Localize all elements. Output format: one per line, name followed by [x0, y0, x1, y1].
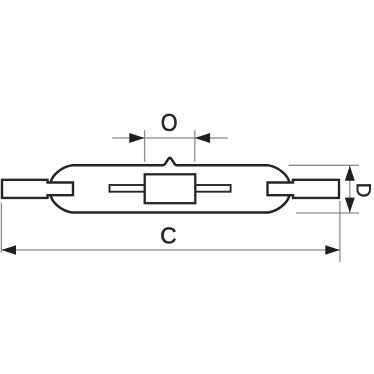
label C	[161, 227, 175, 243]
lamp outer bulb outline with exhaust tip bump on top	[51, 158, 290, 213]
lead wire left	[110, 185, 145, 192]
dimension O: line and extension lines	[112, 130, 228, 162]
left base pin (stepped contact)	[2, 180, 73, 198]
arc tube	[145, 174, 196, 203]
dimension C: line and extension lines	[1, 201, 340, 262]
dimension D: line and extension lines	[289, 165, 359, 213]
dimension O arrowheads	[129, 133, 210, 143]
label D	[357, 184, 371, 196]
right base pin (stepped contact)	[268, 180, 340, 198]
dimension C arrowheads	[1, 245, 340, 254]
dimension D arrowheads	[345, 166, 355, 213]
label O	[162, 114, 177, 131]
lead wire right	[195, 185, 230, 192]
